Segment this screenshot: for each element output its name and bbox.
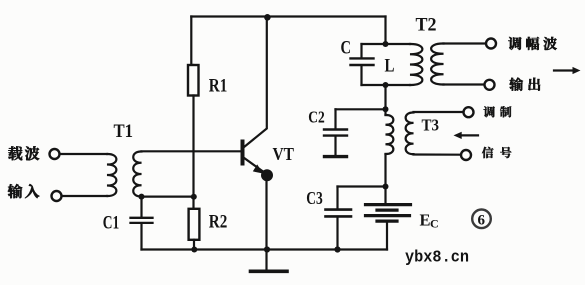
capacitor C3 top lead (336, 187, 338, 209)
svg-text:T2: T2 (416, 14, 437, 35)
transformer T3 secondary winding (406, 112, 414, 154)
svg-text:VT: VT (273, 144, 295, 164)
node C3 junction (383, 184, 389, 190)
wire battery to ground rail corner (386, 222, 388, 249)
svg-text:6: 6 (478, 213, 486, 229)
node collector rail junction (264, 14, 271, 21)
wire input bottom to T1 primary (62, 195, 107, 197)
capacitor C2 bottom lead (334, 137, 336, 156)
capacitor C2 plates (324, 130, 347, 136)
node C2 junction (383, 106, 389, 112)
wire T3 secondary top to modulation terminal (414, 111, 464, 113)
capacitor C3 plates (326, 210, 352, 217)
ground bar below C2 (325, 155, 347, 158)
wire T2 secondary top to output terminal (444, 42, 487, 44)
terminal signal bottom (461, 150, 471, 160)
node emitter ground junction (264, 246, 270, 252)
wire R2 bottom to ground rail (193, 240, 195, 250)
wire top rail (191, 15, 385, 17)
wire T3 primary to battery (384, 154, 386, 204)
wire bottom ground rail (142, 248, 388, 250)
terminal input top (50, 149, 60, 159)
wire C3 branch (338, 185, 386, 187)
label figure number 6 (472, 210, 491, 229)
wire T3 secondary bottom to signal terminal (414, 153, 462, 155)
battery Ec plates (366, 205, 411, 216)
node bias divider junction (191, 194, 197, 200)
label signal (信号) (482, 147, 511, 158)
terminal output bottom (485, 80, 495, 90)
transistor VT base bar (241, 142, 245, 164)
arrow output direction (554, 69, 574, 71)
wire tank bottom to T3 primary (384, 85, 386, 115)
wire emitter down to ground rail (265, 176, 267, 250)
svg-text:C3: C3 (306, 188, 323, 208)
ground (265, 250, 267, 271)
wire rail corner down to tank (384, 17, 386, 45)
resistor R2 (189, 209, 200, 240)
wire tank top (362, 43, 411, 45)
wire R1 bottom to R2 top (192, 96, 194, 209)
svg-text:T3: T3 (422, 116, 440, 135)
terminal input bottom (52, 191, 62, 201)
svg-text:R2: R2 (209, 212, 228, 233)
svg-text:C1: C1 (103, 213, 120, 234)
label input (输入) (8, 184, 40, 198)
capacitor C2 top lead (334, 109, 336, 128)
transformer T3 primary winding (386, 115, 394, 154)
capacitor C bottom lead (360, 66, 362, 85)
transistor VT emitter lead with arrow (244, 158, 264, 172)
capacitor C1 bottom lead (140, 224, 142, 250)
node C3 ground junction (334, 246, 340, 252)
svg-text:R1: R1 (209, 75, 228, 96)
capacitor C1 plates (131, 218, 153, 223)
svg-text:L: L (385, 56, 395, 77)
wire rail corner down to R1 (191, 17, 193, 66)
transformer T2 secondary winding (431, 43, 443, 84)
svg-text:C: C (341, 38, 352, 59)
terminal output top (486, 39, 496, 49)
terminal modulation top (464, 107, 474, 117)
svg-text:C: C (430, 217, 439, 231)
wire T1 secondary bottom to bias divider (142, 196, 194, 198)
wire C2 branch (336, 108, 386, 110)
transistor VT collector lead (244, 17, 267, 148)
svg-text:C2: C2 (308, 108, 325, 127)
node tank bottom junction (383, 82, 389, 88)
node tank top junction (383, 41, 389, 47)
transformer T1 secondary winding (133, 151, 141, 196)
node R2 ground junction (191, 247, 197, 253)
label AM-wave (调幅波) (508, 37, 557, 50)
capacitor C3 bottom lead (336, 218, 338, 250)
svg-text:T1: T1 (114, 121, 134, 142)
label carrier-wave (载波) (8, 146, 39, 160)
svg-text:E: E (420, 210, 431, 229)
label output (输出) (509, 78, 540, 91)
capacitor C plates (351, 58, 374, 65)
arrow modulation direction (460, 134, 478, 136)
resistor R1 (188, 65, 199, 96)
capacitor C1 top lead (140, 197, 142, 217)
wire input top to T1 primary (60, 153, 107, 155)
node T1 secondary bottom junction (139, 194, 145, 200)
transformer T1 primary winding (107, 154, 116, 196)
wire tank bottom (362, 84, 411, 86)
capacitor C top lead (360, 44, 362, 57)
inductor L winding (410, 44, 422, 85)
wire T1 secondary top to VT base (142, 150, 242, 152)
wire T2 secondary bottom to output terminal (444, 83, 485, 85)
label modulation (调制) (484, 106, 512, 117)
svg-text:ybx8.cn: ybx8.cn (405, 248, 469, 267)
